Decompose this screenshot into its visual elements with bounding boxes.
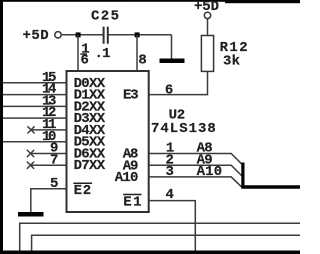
svg-text:A10: A10	[197, 164, 223, 180]
svg-text:3k: 3k	[223, 54, 240, 70]
capacitor C25 plates	[104, 27, 108, 44]
svg-text:6: 6	[165, 83, 173, 99]
wire D3XX pin 12	[3, 117, 67, 119]
sheet border bottom bar	[0, 251, 300, 254]
wire C25 right to ground stem	[109, 34, 172, 36]
node +5D (top right) terminal circle	[204, 12, 210, 18]
junction dot at pin8 column	[135, 32, 140, 37]
svg-text:8: 8	[138, 53, 146, 69]
svg-text:E2: E2	[74, 183, 92, 199]
internal label E1 with overline	[123, 194, 142, 210]
junction dot at pin16 column	[76, 32, 81, 37]
bus horizontal thick	[241, 185, 300, 188]
ground bar (top)	[160, 59, 185, 64]
bus vertical thick	[241, 163, 244, 188]
svg-text:74LS138: 74LS138	[151, 121, 216, 137]
svg-text:7: 7	[50, 152, 58, 168]
wire D5XX pin 10	[3, 141, 67, 143]
internal label E2 with overline	[73, 183, 92, 199]
wire pin 1 A8 with diagonal to bus	[149, 154, 242, 165]
wire D4XX pin 11 stub	[31, 129, 67, 131]
wire E1 pin 4 down to bottom	[149, 201, 196, 251]
ground bar (left)	[18, 212, 44, 217]
bus line lower 1	[20, 223, 300, 250]
sheet border top line	[0, 0, 300, 2]
svg-text:3: 3	[166, 164, 174, 180]
svg-text:E3: E3	[123, 88, 139, 104]
ground stem (top)	[171, 35, 173, 59]
svg-text:A10: A10	[115, 170, 139, 186]
sheet border top-right thick segment	[225, 0, 300, 3]
no-connect X pin 11	[27, 126, 34, 133]
bus line lower 2	[32, 235, 300, 250]
wire down to pin 16	[77, 35, 79, 71]
wire D7XX pin 7 stub	[31, 164, 67, 166]
wire D2XX pin 13	[3, 105, 67, 107]
svg-text:C25: C25	[91, 9, 119, 25]
wire R12 bottom to pin 6	[149, 71, 208, 94]
wire D0XX pin 15	[3, 82, 67, 84]
svg-text:5: 5	[50, 176, 58, 192]
svg-text:+5D: +5D	[23, 28, 49, 44]
pin label 16 (1 over 6)	[80, 42, 89, 69]
svg-text:.1: .1	[95, 46, 111, 62]
svg-text:D7XX: D7XX	[74, 158, 106, 174]
wire down to pin 8	[136, 35, 138, 71]
wire circle to R12	[207, 19, 209, 36]
wire E2 pin 5 with bend to ground	[31, 189, 67, 212]
IC U2 box	[67, 71, 149, 212]
no-connect X pin 7	[27, 162, 34, 169]
wire pin 2 A9 with diagonal to bus	[149, 165, 242, 176]
svg-text:E1: E1	[123, 194, 141, 210]
no-connect X pin 9	[27, 150, 34, 157]
wire +5D to C25 left	[62, 34, 103, 36]
resistor R12 body	[201, 36, 213, 72]
wire D6XX pin 9 stub	[31, 153, 67, 155]
wire pin 3 A10 with diagonal to bus	[149, 177, 242, 187]
wire D1XX pin 14	[3, 94, 67, 96]
svg-text:4: 4	[166, 187, 174, 203]
sheet border left bar	[0, 0, 3, 254]
node +5D (left) terminal circle	[55, 32, 61, 38]
svg-text:6: 6	[81, 52, 89, 68]
